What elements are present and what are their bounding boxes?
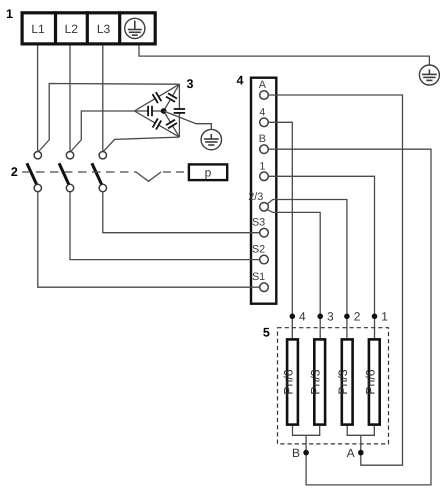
node 4 (290, 314, 296, 320)
svg-text:L3: L3 (97, 22, 111, 36)
wire bracket elements 3+4 to node A (347, 426, 374, 435)
heating element R3 Pn/3 (336, 339, 352, 424)
branch wire bottom vertex to pole 3 contact (104, 137, 180, 151)
svg-text:p: p (205, 166, 212, 180)
wire pole 2 to terminal S2 (70, 192, 260, 260)
terminal S3 (260, 228, 269, 237)
terminal 1 (260, 172, 269, 181)
terminal 2/3 (260, 203, 269, 212)
svg-text:Pn/6: Pn/6 (363, 369, 377, 394)
capacitor C2 (delta bottom edge) (134, 111, 155, 123)
svg-text:2: 2 (354, 309, 361, 323)
branch wire top vertex to pole 1 contact (39, 84, 180, 152)
wire L3 from terminal block to switch pole 3 (102, 46, 104, 152)
switch pole 1 (27, 152, 42, 192)
wire terminal A to node A (268, 95, 402, 465)
switch pole 2 (59, 152, 74, 192)
svg-text:Pn/6: Pn/6 (282, 369, 296, 394)
wire terminal 4 to node 4 and element 1 (268, 122, 292, 338)
terminal block 1 (22, 11, 155, 45)
svg-text:S1: S1 (252, 271, 265, 283)
svg-text:S3: S3 (252, 217, 265, 229)
svg-text:2: 2 (11, 165, 18, 179)
terminal A (260, 91, 269, 100)
node A (358, 450, 364, 456)
earth terminal symbol in block (125, 18, 145, 38)
node 3 (317, 314, 323, 320)
signal lamp p (189, 164, 227, 180)
svg-text:1: 1 (381, 309, 388, 323)
terminal strip 4 (251, 78, 276, 304)
wire bracket elements 1+2 to node B (293, 426, 320, 435)
node 1 (372, 314, 378, 320)
wire star point to ground (164, 111, 212, 129)
wire pole 3 to terminal S3 (103, 192, 260, 233)
terminal 4 (260, 118, 269, 127)
svg-text:3: 3 (187, 77, 194, 91)
capacitor C6 (star to bottom vertex) (164, 111, 171, 122)
svg-text:3: 3 (327, 309, 334, 323)
terminal B (260, 145, 269, 154)
svg-text:S2: S2 (252, 244, 265, 256)
node B (303, 450, 309, 456)
svg-text:B: B (292, 446, 300, 460)
terminal S1 (260, 283, 269, 292)
ground (suppressor) (201, 129, 221, 149)
capacitor C5 (star to top vertex) (164, 99, 171, 111)
svg-text:4: 4 (259, 106, 265, 118)
svg-text:Pn/3: Pn/3 (309, 369, 323, 394)
dashed coupling link (22, 172, 188, 181)
capacitor C1 (delta top edge) (134, 99, 155, 111)
wire PE from terminal block to ground (139, 46, 429, 66)
wire L1 from terminal block to switch pole 1 (37, 46, 39, 152)
terminal S2 (260, 255, 269, 264)
wire terminal 1 to node 1 and element 4 (268, 176, 374, 338)
svg-text:1: 1 (259, 160, 265, 172)
svg-text:1: 1 (6, 7, 13, 21)
svg-text:Pn/3: Pn/3 (336, 369, 350, 394)
heating element R4 Pn/6 (363, 339, 379, 424)
node 2 (344, 314, 350, 320)
capacitor C3 (delta right edge) (178, 84, 180, 109)
heating element R1 Pn/6 (282, 339, 298, 424)
svg-text:A: A (347, 446, 355, 460)
svg-text:L1: L1 (31, 22, 45, 36)
svg-text:2/3: 2/3 (248, 191, 263, 203)
wire terminal 2/3 to node 3 and element 2 (268, 210, 321, 338)
wire terminal 2/3 to node 2 and element 3 (268, 200, 347, 339)
branch wire left vertex to pole 2 contact (71, 111, 135, 152)
switch pole 3 (92, 152, 107, 192)
svg-text:5: 5 (263, 326, 270, 340)
svg-text:B: B (259, 133, 266, 145)
ground (top right) (419, 65, 439, 85)
svg-text:4: 4 (237, 74, 244, 88)
svg-text:A: A (259, 79, 267, 91)
wire L2 from terminal block to switch pole 2 (69, 46, 71, 152)
svg-text:4: 4 (299, 309, 306, 323)
heating element R2 Pn/3 (309, 339, 325, 424)
svg-text:L2: L2 (65, 22, 79, 36)
wire pole 1 to terminal S1 (38, 192, 260, 288)
wire terminal B to node B (268, 149, 431, 485)
node star point of suppressor (161, 108, 167, 114)
heater bank 5 dashed enclosure (278, 328, 389, 444)
capacitor C4 (star to left vertex) (152, 110, 164, 112)
